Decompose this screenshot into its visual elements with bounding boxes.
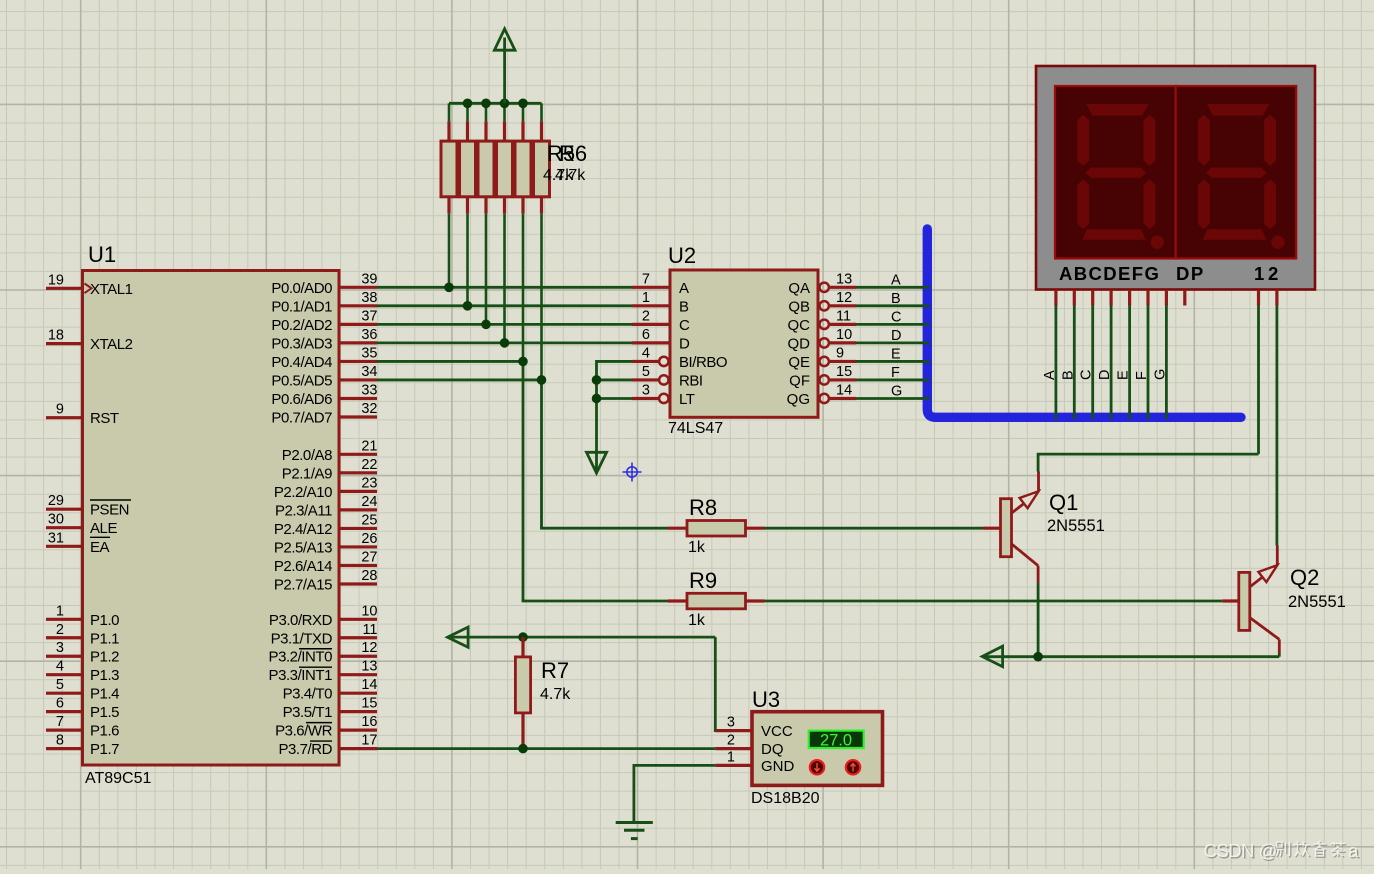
svg-text:15: 15: [836, 364, 852, 380]
svg-text:9: 9: [56, 402, 64, 418]
svg-text:4.7k: 4.7k: [555, 167, 586, 184]
svg-text:C: C: [679, 317, 690, 334]
svg-text:A: A: [891, 272, 901, 288]
svg-text:EA: EA: [90, 539, 110, 556]
junction Q1-rail: [1033, 652, 1043, 662]
svg-text:P0.4/AD4: P0.4/AD4: [271, 354, 332, 371]
svg-text:ABCDEFG: ABCDEFG: [1059, 263, 1160, 284]
svg-text:P1.3: P1.3: [90, 667, 119, 684]
junction top rail: [463, 99, 473, 109]
svg-text:P0.2/AD2: P0.2/AD2: [271, 317, 332, 334]
wire 7seg pin2 down: [1276, 306, 1279, 546]
U3 button up: [846, 760, 860, 774]
wire P0.2 to U2 C: [377, 323, 632, 326]
svg-text:QD: QD: [788, 335, 811, 352]
svg-text:4: 4: [56, 659, 64, 675]
junction P0.5: [537, 375, 547, 385]
wire col5 down to R9 row: [522, 361, 525, 601]
svg-text:9: 9: [836, 345, 844, 361]
resistor R6: [534, 103, 550, 213]
svg-text:P0.0/AD0: P0.0/AD0: [271, 280, 332, 297]
svg-text:38: 38: [361, 290, 377, 306]
svg-text:R9: R9: [689, 568, 717, 593]
wires QA-QG to bus: [856, 287, 930, 398]
svg-text:QF: QF: [789, 372, 810, 389]
junction top rail: [518, 99, 528, 109]
svg-text:GND: GND: [761, 758, 795, 775]
wire P0.4: [377, 360, 523, 363]
resistor R1: [441, 103, 457, 213]
svg-text:a: a: [1348, 840, 1359, 861]
svg-text:2: 2: [642, 308, 650, 324]
U1 right pins P3: [269, 603, 378, 758]
net labels A-G on QA-QG wires: [891, 272, 902, 399]
svg-text:1k: 1k: [688, 612, 706, 629]
svg-text:24: 24: [361, 494, 377, 510]
svg-text:ALE: ALE: [90, 520, 117, 537]
svg-text:1: 1: [1254, 263, 1264, 284]
svg-text:F: F: [1134, 371, 1150, 380]
svg-text:R6: R6: [559, 141, 587, 166]
junction P0.2: [481, 320, 491, 330]
wire Q1 collector to 7seg pin1: [1038, 454, 1258, 471]
power terminal (up arrow): [494, 29, 515, 103]
svg-text:17: 17: [361, 733, 377, 749]
svg-text:QA: QA: [788, 280, 810, 297]
U3 pins: [715, 715, 794, 775]
transistor Q2 2N5551: [1222, 546, 1346, 654]
bus (blue): [927, 229, 1241, 417]
wire R5 to P0.4: [522, 214, 525, 362]
svg-text:P2.3/A11: P2.3/A11: [275, 502, 332, 519]
svg-text:P1.2: P1.2: [90, 649, 119, 666]
svg-text:4: 4: [642, 345, 650, 361]
svg-text:18: 18: [48, 328, 64, 344]
wire R4 to P0.3: [503, 214, 506, 343]
svg-text:P0.1/AD1: P0.1/AD1: [271, 298, 332, 315]
resistor R3: [478, 103, 494, 213]
svg-text:P2.0/A8: P2.0/A8: [282, 447, 332, 464]
U1 XTAL1 clock mark: [85, 284, 92, 294]
svg-text:27.0: 27.0: [820, 731, 852, 749]
U3 temperature readout 27.0: [809, 731, 864, 750]
svg-text:10: 10: [836, 327, 852, 343]
wire 7seg pin1 down: [1257, 306, 1260, 455]
svg-text:P1.4: P1.4: [90, 686, 119, 703]
wire col6 corner to R8: [542, 526, 669, 528]
svg-text:P2.1/A9: P2.1/A9: [282, 465, 332, 482]
svg-text:2: 2: [56, 622, 64, 638]
svg-text:P3.3/INT1: P3.3/INT1: [269, 667, 333, 684]
resistor R7: [515, 637, 571, 749]
svg-text:8: 8: [56, 733, 64, 749]
svg-text:32: 32: [361, 401, 377, 417]
svg-text:2N5551: 2N5551: [1288, 593, 1346, 611]
transistor Q1 2N5551: [983, 472, 1105, 584]
wire col6 down to R8 row: [540, 380, 543, 528]
svg-text:BI/RBO: BI/RBO: [679, 354, 727, 371]
wire col5 corner to R9: [523, 599, 668, 601]
svg-text:37: 37: [361, 308, 377, 324]
svg-text:35: 35: [361, 345, 377, 361]
svg-text:QE: QE: [788, 354, 810, 371]
svg-text:D: D: [891, 328, 901, 344]
svg-text:14: 14: [836, 382, 852, 398]
svg-text:C: C: [1079, 370, 1095, 380]
wire down to U3 VCC: [715, 637, 717, 731]
svg-text:B: B: [1060, 370, 1076, 380]
svg-text:P2.2/A10: P2.2/A10: [274, 484, 332, 501]
U1 left pins: [46, 272, 133, 758]
U1 right pins P0: [271, 271, 377, 426]
svg-text:QB: QB: [788, 298, 810, 315]
svg-text:10: 10: [361, 603, 377, 619]
resistor R5: [515, 103, 531, 213]
svg-text:P0.6/AD6: P0.6/AD6: [271, 391, 332, 408]
svg-text:P3.2/INT0: P3.2/INT0: [269, 649, 333, 666]
wire P0.5: [377, 379, 542, 382]
resistor R2: [460, 103, 476, 213]
svg-text:P2.4/A12: P2.4/A12: [274, 521, 332, 538]
wire Q2 emitter to rail: [1278, 654, 1281, 657]
svg-text:16: 16: [361, 714, 377, 730]
svg-text:36: 36: [361, 327, 377, 343]
power terminal (left arrow) near R7: [448, 627, 469, 647]
svg-text:2: 2: [1268, 263, 1278, 284]
svg-text:U3: U3: [752, 687, 780, 712]
svg-text:6: 6: [642, 327, 650, 343]
svg-text:2N5551: 2N5551: [1047, 517, 1105, 535]
svg-text:5: 5: [642, 364, 650, 380]
junction top rail: [500, 99, 510, 109]
U2 right pins: [820, 271, 857, 403]
wire R6 to P0.5: [540, 214, 543, 380]
wire P0.1 to U2 B: [377, 304, 632, 307]
svg-text:P1.6: P1.6: [90, 723, 119, 740]
junction P0.4: [518, 357, 528, 367]
svg-text:7: 7: [56, 714, 64, 730]
svg-text:R8: R8: [689, 495, 717, 520]
svg-text:1: 1: [56, 603, 64, 619]
svg-text:2: 2: [727, 733, 735, 749]
7seg bezel pin names: [1059, 263, 1278, 284]
svg-text:A: A: [1042, 370, 1058, 380]
svg-text:19: 19: [48, 272, 64, 288]
svg-text:P1.0: P1.0: [90, 612, 119, 629]
svg-text:VCC: VCC: [761, 723, 793, 740]
svg-text:XTAL1: XTAL1: [90, 281, 133, 298]
svg-text:E: E: [891, 346, 901, 362]
wire R2 to P0.1: [466, 214, 469, 306]
top rail wire: [449, 102, 542, 105]
svg-text:P3.5/T1: P3.5/T1: [283, 704, 332, 721]
U1 active-low overlines: [299, 649, 332, 741]
svg-text:3: 3: [727, 715, 735, 731]
U3 button down: [810, 760, 824, 774]
svg-text:29: 29: [48, 493, 64, 509]
ground symbol: [616, 823, 653, 839]
svg-text:33: 33: [361, 382, 377, 398]
resistor R4: [497, 103, 513, 213]
svg-text:P1.5: P1.5: [90, 704, 119, 721]
svg-text:26: 26: [361, 531, 377, 547]
svg-text:P2.6/A14: P2.6/A14: [274, 558, 332, 575]
ground rail wire: [1003, 655, 1279, 658]
svg-text:P0.3/AD3: P0.3/AD3: [271, 335, 332, 352]
wire U3 GND to ground: [634, 765, 715, 821]
wire R1 to P0.0: [448, 214, 451, 288]
resistor R8: [668, 495, 765, 556]
wire Q1 emitter down to rail: [1037, 583, 1040, 657]
junction P0.0: [444, 283, 454, 293]
svg-text:12: 12: [836, 290, 852, 306]
U1 right pins P2: [274, 438, 378, 593]
wire LT: [597, 397, 633, 400]
wire P3.7/RD to U3 DQ: [377, 747, 715, 750]
svg-text:DQ: DQ: [761, 741, 784, 758]
junction R7 top: [518, 632, 528, 642]
wire R3 to P0.2: [485, 214, 488, 325]
junction R7 bottom on DQ: [518, 744, 528, 754]
7seg digit cell 1: [1055, 86, 1176, 259]
svg-text:U2: U2: [668, 243, 696, 268]
svg-text:22: 22: [361, 457, 377, 473]
7seg pins A-G: [1056, 290, 1167, 306]
svg-text:AT89C51: AT89C51: [85, 770, 152, 787]
watermark CSDN: [1204, 840, 1361, 863]
svg-text:P3.7/RD: P3.7/RD: [278, 741, 332, 758]
svg-text:P3.0/RXD: P3.0/RXD: [269, 612, 333, 629]
svg-text:F: F: [891, 365, 900, 381]
svg-text:4.7k: 4.7k: [540, 686, 571, 703]
resistor R9: [668, 568, 765, 629]
ground terminal (left arrow) at rail: [982, 646, 1002, 666]
svg-text:27: 27: [361, 549, 377, 565]
svg-text:DS18B20: DS18B20: [751, 790, 820, 807]
svg-text:P2.5/A13: P2.5/A13: [274, 539, 332, 556]
svg-text:74LS47: 74LS47: [668, 420, 723, 437]
svg-text:QG: QG: [787, 391, 810, 408]
svg-text:C: C: [891, 309, 901, 325]
svg-text:23: 23: [361, 475, 377, 491]
svg-text:P0.7/AD7: P0.7/AD7: [271, 410, 332, 427]
svg-text:R7: R7: [541, 658, 569, 683]
svg-text:G: G: [891, 383, 902, 399]
wire vcc row: [468, 636, 715, 639]
wire R9 to Q2 base: [765, 600, 1223, 603]
junction top rail: [481, 99, 491, 109]
ic U3 DS18B20 body: [751, 687, 883, 807]
7seg digit cell 2: [1176, 86, 1297, 259]
svg-text:1k: 1k: [688, 539, 706, 556]
svg-text:11: 11: [362, 622, 377, 638]
junction LT: [592, 394, 602, 404]
svg-text:B: B: [679, 298, 689, 315]
svg-text:21: 21: [361, 438, 377, 454]
svg-text:31: 31: [48, 530, 64, 546]
svg-text:RBI: RBI: [679, 372, 703, 389]
svg-text:XTAL2: XTAL2: [90, 336, 133, 353]
svg-text:5: 5: [56, 677, 64, 693]
svg-text:P3.6/WR: P3.6/WR: [275, 723, 332, 740]
origin marker (blue crosshair): [623, 463, 642, 482]
svg-text:6: 6: [56, 696, 64, 712]
svg-text:13: 13: [361, 659, 377, 675]
svg-text:28: 28: [361, 568, 377, 584]
svg-text:U1: U1: [88, 242, 116, 267]
wire RBI: [597, 379, 633, 382]
svg-text:DP: DP: [1176, 263, 1205, 284]
junction P0.1: [463, 301, 473, 311]
rotated net labels A-G: [1042, 369, 1169, 380]
svg-text:B: B: [891, 291, 901, 307]
ic U2 74LS47 body: [668, 243, 818, 437]
svg-text:Q2: Q2: [1290, 565, 1319, 590]
svg-text:G: G: [1152, 369, 1168, 380]
svg-text:RST: RST: [90, 410, 119, 427]
svg-text:7: 7: [642, 271, 650, 287]
svg-text:P0.5/AD5: P0.5/AD5: [271, 372, 332, 389]
wire BI/RBO: [597, 361, 633, 380]
svg-text:12: 12: [361, 640, 377, 656]
svg-text:P1.7: P1.7: [90, 741, 119, 758]
svg-text:P3.1/TXD: P3.1/TXD: [271, 630, 333, 647]
junction P0.3: [500, 338, 510, 348]
svg-text:Q1: Q1: [1049, 490, 1078, 515]
U2 left pins: [632, 271, 727, 408]
svg-text:1: 1: [727, 749, 735, 765]
wire P0.3 to U2 D: [377, 341, 632, 344]
7-segment display module: [1036, 66, 1315, 290]
svg-text:P2.7/A15: P2.7/A15: [274, 577, 332, 594]
svg-text:QC: QC: [788, 317, 811, 334]
svg-text:3: 3: [56, 640, 64, 656]
wire R8 to Q1 base: [765, 527, 984, 530]
svg-text:30: 30: [48, 512, 64, 528]
wires 7seg A-G to bus: [1056, 306, 1167, 420]
svg-text:25: 25: [361, 512, 377, 528]
svg-text:13: 13: [836, 271, 852, 287]
svg-text:D: D: [679, 335, 690, 352]
svg-text:14: 14: [361, 677, 377, 693]
svg-text:LT: LT: [679, 391, 695, 408]
wire down to ground arrow: [595, 380, 598, 471]
svg-text:P3.4/T0: P3.4/T0: [283, 686, 332, 703]
svg-text:11: 11: [836, 308, 851, 324]
junction RBI: [592, 375, 602, 385]
svg-text:CSDN @: CSDN @: [1204, 840, 1277, 861]
svg-text:15: 15: [361, 696, 377, 712]
ground terminal (down arrow): [587, 452, 607, 473]
svg-text:1: 1: [642, 290, 650, 306]
svg-text:P1.1: P1.1: [90, 630, 119, 647]
ic U1 AT89C51 body: [83, 242, 340, 787]
svg-text:39: 39: [361, 271, 377, 287]
svg-text:PSEN: PSEN: [90, 502, 129, 519]
svg-text:E: E: [1116, 370, 1132, 380]
7seg pins 1,2: [1259, 290, 1277, 306]
svg-text:3: 3: [642, 382, 650, 398]
wire P0.0 to U2 A: [377, 286, 632, 289]
svg-text:D: D: [1097, 370, 1113, 380]
7seg pin DP: [1183, 290, 1186, 306]
svg-text:A: A: [679, 280, 689, 297]
svg-text:34: 34: [361, 364, 377, 380]
